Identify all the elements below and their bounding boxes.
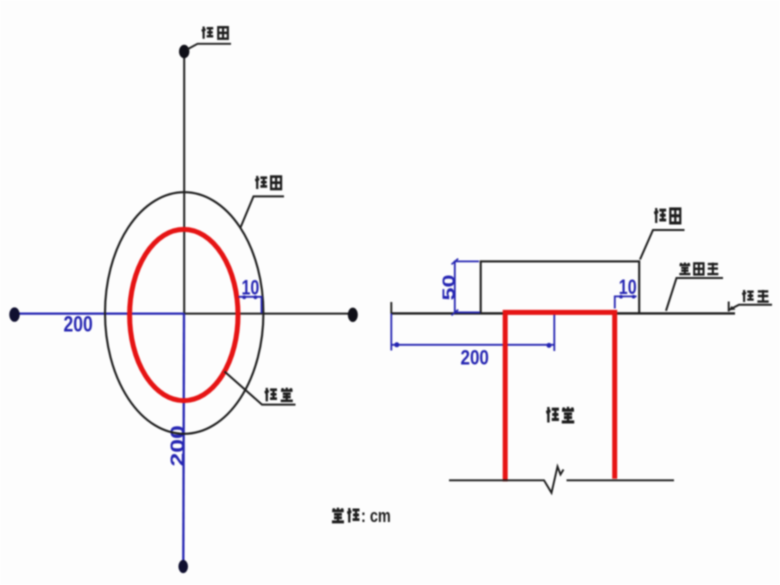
wire: 200-dimension line (blue) bbox=[391, 344, 554, 346]
wire: ground line bbox=[391, 312, 735, 314]
svg-text:200: 200 bbox=[64, 313, 93, 338]
wire: leader to pile label bbox=[225, 372, 296, 405]
wire: leader + underline for ground-surface label bbox=[666, 278, 723, 311]
wire: leader + underline for casing label (elevation) bbox=[640, 230, 685, 260]
casing: outer black circle bbox=[105, 192, 263, 434]
svg-text:50: 50 bbox=[439, 274, 459, 300]
wire: underline + arrow for axis label (elevation) bbox=[730, 305, 773, 310]
pile: inner red circle bbox=[130, 229, 238, 400]
node: bottom axis dot bbox=[178, 560, 188, 573]
node: 200-dim arrows bbox=[394, 342, 399, 347]
pile: red outline (elevation) bbox=[505, 312, 615, 481]
wire: bottom break line bbox=[449, 467, 564, 493]
node: 50-dim ticks bbox=[452, 259, 459, 316]
wire: 10-dimension bracket (elevation) bbox=[615, 296, 637, 308]
wire: horizontal axis right half (black) bbox=[184, 313, 352, 315]
label: pile (2 chars) bbox=[265, 388, 277, 402]
label: axis (top, 2 chars) bbox=[202, 27, 214, 39]
wire: 50-dimension bracket (blue) bbox=[455, 261, 480, 312]
wire: leader to axis label (top) bbox=[187, 44, 231, 50]
svg-text:200: 200 bbox=[461, 347, 489, 370]
label: casing (2 chars) bbox=[255, 176, 267, 189]
label: units note bbox=[332, 508, 344, 522]
svg-text:10: 10 bbox=[242, 275, 260, 299]
label: axis elevation (2 chars) bbox=[742, 290, 754, 302]
wire: vertical blue dimension line (bottom half) bbox=[182, 314, 185, 566]
node: right axis dot bbox=[348, 308, 358, 322]
wire: ground line left tick bbox=[390, 302, 392, 314]
wire: vertical axis (black, top half) bbox=[183, 52, 185, 314]
node: top axis dot bbox=[179, 45, 189, 59]
node: arrowhead bbox=[729, 306, 736, 310]
svg-text:: cm: : cm bbox=[361, 505, 391, 526]
node: tick dots of 10-dimension bbox=[242, 295, 246, 299]
label: casing elevation (2 chars) bbox=[654, 208, 666, 223]
node: tick dots of elevation 10-dim bbox=[619, 295, 623, 299]
wire: 10-dimension bracket (plan) bbox=[239, 297, 262, 313]
wire: leader to casing label bbox=[241, 196, 285, 227]
wire: 200-dimension extension lines (blue) bbox=[391, 313, 554, 351]
casing: rectangle above ground bbox=[481, 261, 640, 313]
wire: ground line right tick bbox=[728, 302, 730, 312]
label: ground surface (3 chars) bbox=[679, 262, 690, 274]
wire: horizontal blue dimension line (left half) bbox=[15, 313, 184, 315]
label: pile body (2 chars) bbox=[546, 407, 559, 423]
node: left axis dot bbox=[9, 307, 19, 321]
wire: bottom line right part bbox=[567, 479, 675, 481]
